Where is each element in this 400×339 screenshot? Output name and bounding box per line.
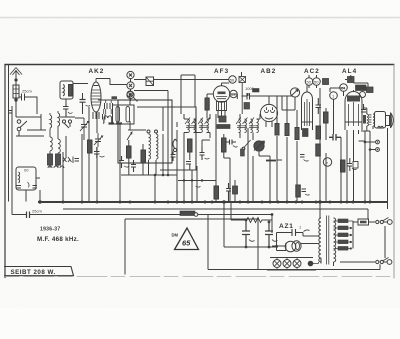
cap x318 [316,98,322,114]
volume pot [254,141,264,151]
mains switch upper [376,220,379,223]
wires AB2 area [248,93,270,202]
AK2 grids [92,90,101,105]
AK2 octode tube [91,82,101,112]
speaker wires [361,108,388,202]
box right AL4 [367,87,374,93]
electrolytic cap 1 [242,220,250,247]
page scan edge top [0,17,400,19]
switch lever AB2 [244,140,251,148]
wire x231 drop [224,202,231,247]
cap in osc box left [17,186,22,189]
terminals right [376,140,380,144]
box x234 [233,186,238,194]
circle links [130,79,132,101]
curl under osc [124,166,129,167]
resistor x297 [295,128,299,140]
AZ1 stubs left [272,245,277,247]
antenna node dot [14,78,17,81]
feed wire y90.5 [134,90,168,92]
feed wire top y79.5 [134,79,229,81]
wire AZ1 to transformer [301,233,319,244]
wires left mid verticals [63,107,97,202]
switch link vertical [384,226,386,258]
frame right border [393,65,395,279]
frame bottom faint rule [5,276,390,278]
junction dots power [271,213,274,216]
AB2 diode plates [265,107,275,112]
wire x184 drop [184,116,210,202]
mains switch lower [376,260,379,263]
AK2 top cap [94,79,99,86]
curl 4u 1 [249,240,255,242]
switch arrow osc [127,132,132,140]
dark box x242 [241,149,245,156]
variable cap C-tune2 [94,133,103,147]
transformer core dashes [370,114,371,125]
coil block bottom scallops [48,166,64,168]
switch lever [20,121,27,128]
dial lamp 1 [273,260,281,268]
wire switch drop [16,114,41,136]
wire x353 drop [347,130,359,202]
cap pair a [105,103,113,109]
dial lamp 3 [293,260,301,268]
resistor right of osc [141,150,146,163]
resistor x326 top [324,112,329,123]
AC2 wires [307,75,320,202]
tap box 1 [338,219,348,223]
dial lamp 2 [283,260,291,268]
wire AB2 left stub [241,72,243,77]
AK2 legs [93,112,99,119]
wire 25cm line [12,214,272,216]
resistor x216 [214,186,219,199]
AC2 tube dome [302,92,313,130]
secondary bus wire [63,208,368,210]
cap curl [86,105,91,106]
lamp stubs [277,258,319,271]
resistor x277 [275,124,279,136]
resistor x192 lower [189,152,191,170]
antenna trimmer box [13,85,19,98]
crystal box [146,77,154,86]
circled 03 right of AF3 [230,90,237,97]
coil block wires [50,111,58,168]
cap stubs [82,93,84,114]
resistor x224 vertical [222,138,227,152]
wire x192 x197 drops [192,140,210,202]
switch circle E [127,91,134,98]
cap mid right [348,158,353,171]
wire AK2 to filter y100 [98,99,118,101]
IF2 trimmer arrows [185,118,210,125]
lamp row top rail [270,257,313,259]
wire y175 collector [121,107,177,202]
terminal on mains line [194,213,198,217]
cap curl x198 [196,186,201,187]
IF2 frame wires [184,114,210,133]
frame left border [4,65,6,278]
resistor x189 [188,139,193,152]
IF transformer 3 coil pair a [239,119,241,133]
curl x205 [205,158,210,159]
AC2 base [302,121,313,123]
capacitor x173 [171,152,176,161]
coil L1b [58,113,60,126]
resistor x207 [205,98,209,110]
tap collector vertical [352,221,354,249]
cap pair near 228 [226,183,231,202]
switch contact lower [17,127,21,131]
resistor block b [56,154,61,165]
junction diamond [14,98,17,101]
DM 65 logo triangle [175,228,199,250]
wire drop to AZ1 filament [271,215,273,234]
switch lever right x175 [173,148,176,151]
wire y180.5 [178,180,216,182]
power enclosure right stub [257,219,259,270]
wire box out right [73,83,88,85]
resistor block a [48,154,53,165]
resistor lowleft of P [296,185,301,197]
coil tops at 104-112 [104,116,112,123]
title block box SEIBT 208 W [5,267,74,276]
wire filter top [231,219,246,221]
IF2b core dashes [199,126,209,128]
curl x234 [233,146,238,148]
wire y117 filter [60,116,75,118]
wire y160 jog [277,159,282,161]
circled P [323,158,331,166]
band coil assembly left [48,111,65,168]
circled 1 [330,92,338,100]
cap on y96 [242,93,263,100]
power enclosure top [125,218,258,220]
coil L1a [50,115,52,128]
coil L2a [50,137,52,151]
capacitor below box [63,104,69,117]
AF3 tube circle [213,86,229,102]
AF3 grid dashes [218,92,226,95]
circle node above box [127,91,133,97]
capacitor at tube left [80,100,86,103]
speaker frame [375,112,386,129]
caps under osc box [119,156,124,168]
speaker driver [386,116,390,126]
output transformer primary [367,114,369,126]
caps under osc 2 [131,160,136,172]
cap pair b [103,114,106,120]
power enclosure left [124,219,126,275]
speaker cone crescent [391,113,394,129]
node dot [308,261,314,267]
IF transformer 2 coil pair b [201,119,203,133]
switch levers 771 [63,157,73,164]
coil in osc box [19,172,20,183]
IF3 trimmers [236,118,254,125]
wire x224 [224,134,230,202]
cap lowleft [302,189,307,192]
wire fuse to switch [369,221,376,223]
dark box 25 [303,129,309,137]
tap box 4 [338,240,348,244]
AC2 labels circled [305,78,313,86]
transformer feed from bus [320,202,334,266]
coil base dark bars [109,122,123,124]
AZ1 inner plate [296,242,300,249]
wires mid-right [326,88,345,202]
resistor in box [69,85,73,97]
switch contacts row [62,120,65,123]
lower heater line [340,261,375,263]
coil pair in box a [116,107,120,123]
IF3 wires [240,114,260,138]
wire x177 drop [176,122,178,202]
wire AF3 right [230,94,238,99]
wire x216 [215,114,217,202]
fuse line [353,221,358,223]
input bandfilter shield box [60,81,89,140]
AF3 top stub [222,83,230,86]
wire box down [65,99,67,104]
cap above AZ1 [277,229,304,236]
wire horizontal y117 [16,116,41,118]
AZ1 tube bulb 2 [292,241,301,251]
wire y130 to coils [128,129,146,131]
AB2 tube [260,104,277,121]
dots y180.5 [183,179,185,181]
cap x364 [361,104,366,112]
tap box 5 [338,247,348,251]
circle letters [129,74,132,97]
switch contact upper [17,120,21,124]
resistor WW zigzag [246,218,272,223]
IF3a core [237,126,247,128]
resistor bracket mid [341,160,346,172]
wire drop x168 [167,91,169,176]
wire left rail 2 [11,106,13,215]
resistor 05M [316,126,321,139]
wire var cap [75,118,84,140]
speaker notch [378,126,384,128]
transformer blob [363,115,366,124]
AL4 dark band [347,96,360,102]
scan noise [0,0,1,1]
box under AL4 [353,162,358,169]
resistor 500 [88,140,93,153]
lamp row bottom rail [267,269,316,271]
capacitor 25cm antenna [19,94,30,101]
caps bottom left of AF3 [186,162,191,165]
osc section rounded box [16,167,36,190]
box 15 [323,79,329,85]
IF3b core [249,126,259,128]
terminal lower [387,260,392,265]
osc coil top circles [147,130,150,133]
tap wires [334,221,354,249]
coil in box [63,85,64,96]
curl 1u [304,230,310,232]
bandswitch coil box [113,105,135,124]
fuse box [358,219,369,225]
tap box 3 [338,233,348,237]
wire antenna to filter [30,97,37,114]
resistor in osc [127,146,132,158]
bus junction dots [38,200,371,203]
AL4 tube [345,92,362,130]
cap small left [8,111,13,114]
wire inner left rail [8,65,10,202]
wires osc verticals [120,121,156,202]
circled 24b [360,92,366,98]
capacitor 25cm on lower wire [27,212,30,219]
AB2 cathode arc [265,118,273,120]
wire AK2 top to switch circles [96,79,127,85]
circled 56 [229,76,236,83]
wire osc box to bus [26,178,40,202]
dots y175 [154,174,157,177]
curl mid right [352,169,357,170]
mains transformer primary [319,218,321,262]
antenna mast wire [15,70,17,117]
AZ1 tube bulb 1 [285,241,296,252]
AZ1 cathode bar [285,243,287,251]
label box 25n [112,96,118,99]
box m05 [356,85,367,91]
wire drop x368 to fuse line [367,209,369,219]
box 05 IF3 [219,116,226,122]
resistor 230 on lower wire [180,211,195,216]
capacitor lg [94,147,100,158]
osc coil column b [156,134,158,159]
resistor 20000 horizontal [217,125,230,129]
circle3 tail [134,98,138,102]
AL4 wires [344,75,369,96]
box 03 right of 56 [239,77,246,83]
mains transformer secondary [334,218,336,262]
shield box R1 [118,100,172,163]
IF transformer 3 coil pair b [251,119,253,133]
variable cap C-tune1 [80,118,89,134]
curl 4u 2 [272,240,278,242]
output transformer secondary [373,114,375,126]
shield box R2 [137,107,196,170]
AB2 legs [266,121,272,127]
cap h x232 [226,140,236,145]
IF transformer 2 coil pair a [188,119,190,133]
electrolytic cap 2 [265,222,273,247]
cap x202 [200,147,205,160]
AZ1 loop left [277,233,287,251]
osc coil column a [149,134,151,159]
cap dark x335 [329,134,341,141]
coil pair in box b [126,107,130,123]
AB2 top wires [262,96,293,104]
filter bottom rail [224,246,278,248]
bottom rail [208,215,380,270]
wire to coil block [19,130,46,136]
frame top border [5,64,394,66]
AL4 labels [340,84,348,92]
right drop x387.5 [387,143,389,202]
IF2a core dashes [186,126,196,128]
coil L2b [58,139,60,153]
antenna arrow [10,68,22,76]
resistor x287 [285,124,289,136]
AF3 shield column [181,75,195,114]
wire AL4 cathode area [359,140,366,142]
resistor dark h [253,89,260,93]
curl lowleft [305,194,310,195]
tap dots [350,227,352,229]
tuning indicator [290,88,299,97]
cap with curl left [300,155,305,158]
bus corner right [387,202,389,209]
capacitor at 75 [75,159,80,162]
curl 2m [68,112,73,113]
curl in osc box [28,182,30,188]
resistor x318 low [316,144,321,156]
AF3 legs [218,111,225,120]
AF3 base box [217,102,227,111]
curl lg [100,156,105,157]
switch circle K [127,82,134,89]
wires x277 x287 x297 [277,96,297,202]
terminal upper [387,220,392,225]
thick seg [266,160,276,162]
main ground bus [38,201,388,203]
transformer core [327,216,329,265]
tap box 2 [338,226,348,230]
switch circle B [127,71,134,78]
cap in osc box right [33,186,38,189]
wire bus left start [38,190,40,202]
